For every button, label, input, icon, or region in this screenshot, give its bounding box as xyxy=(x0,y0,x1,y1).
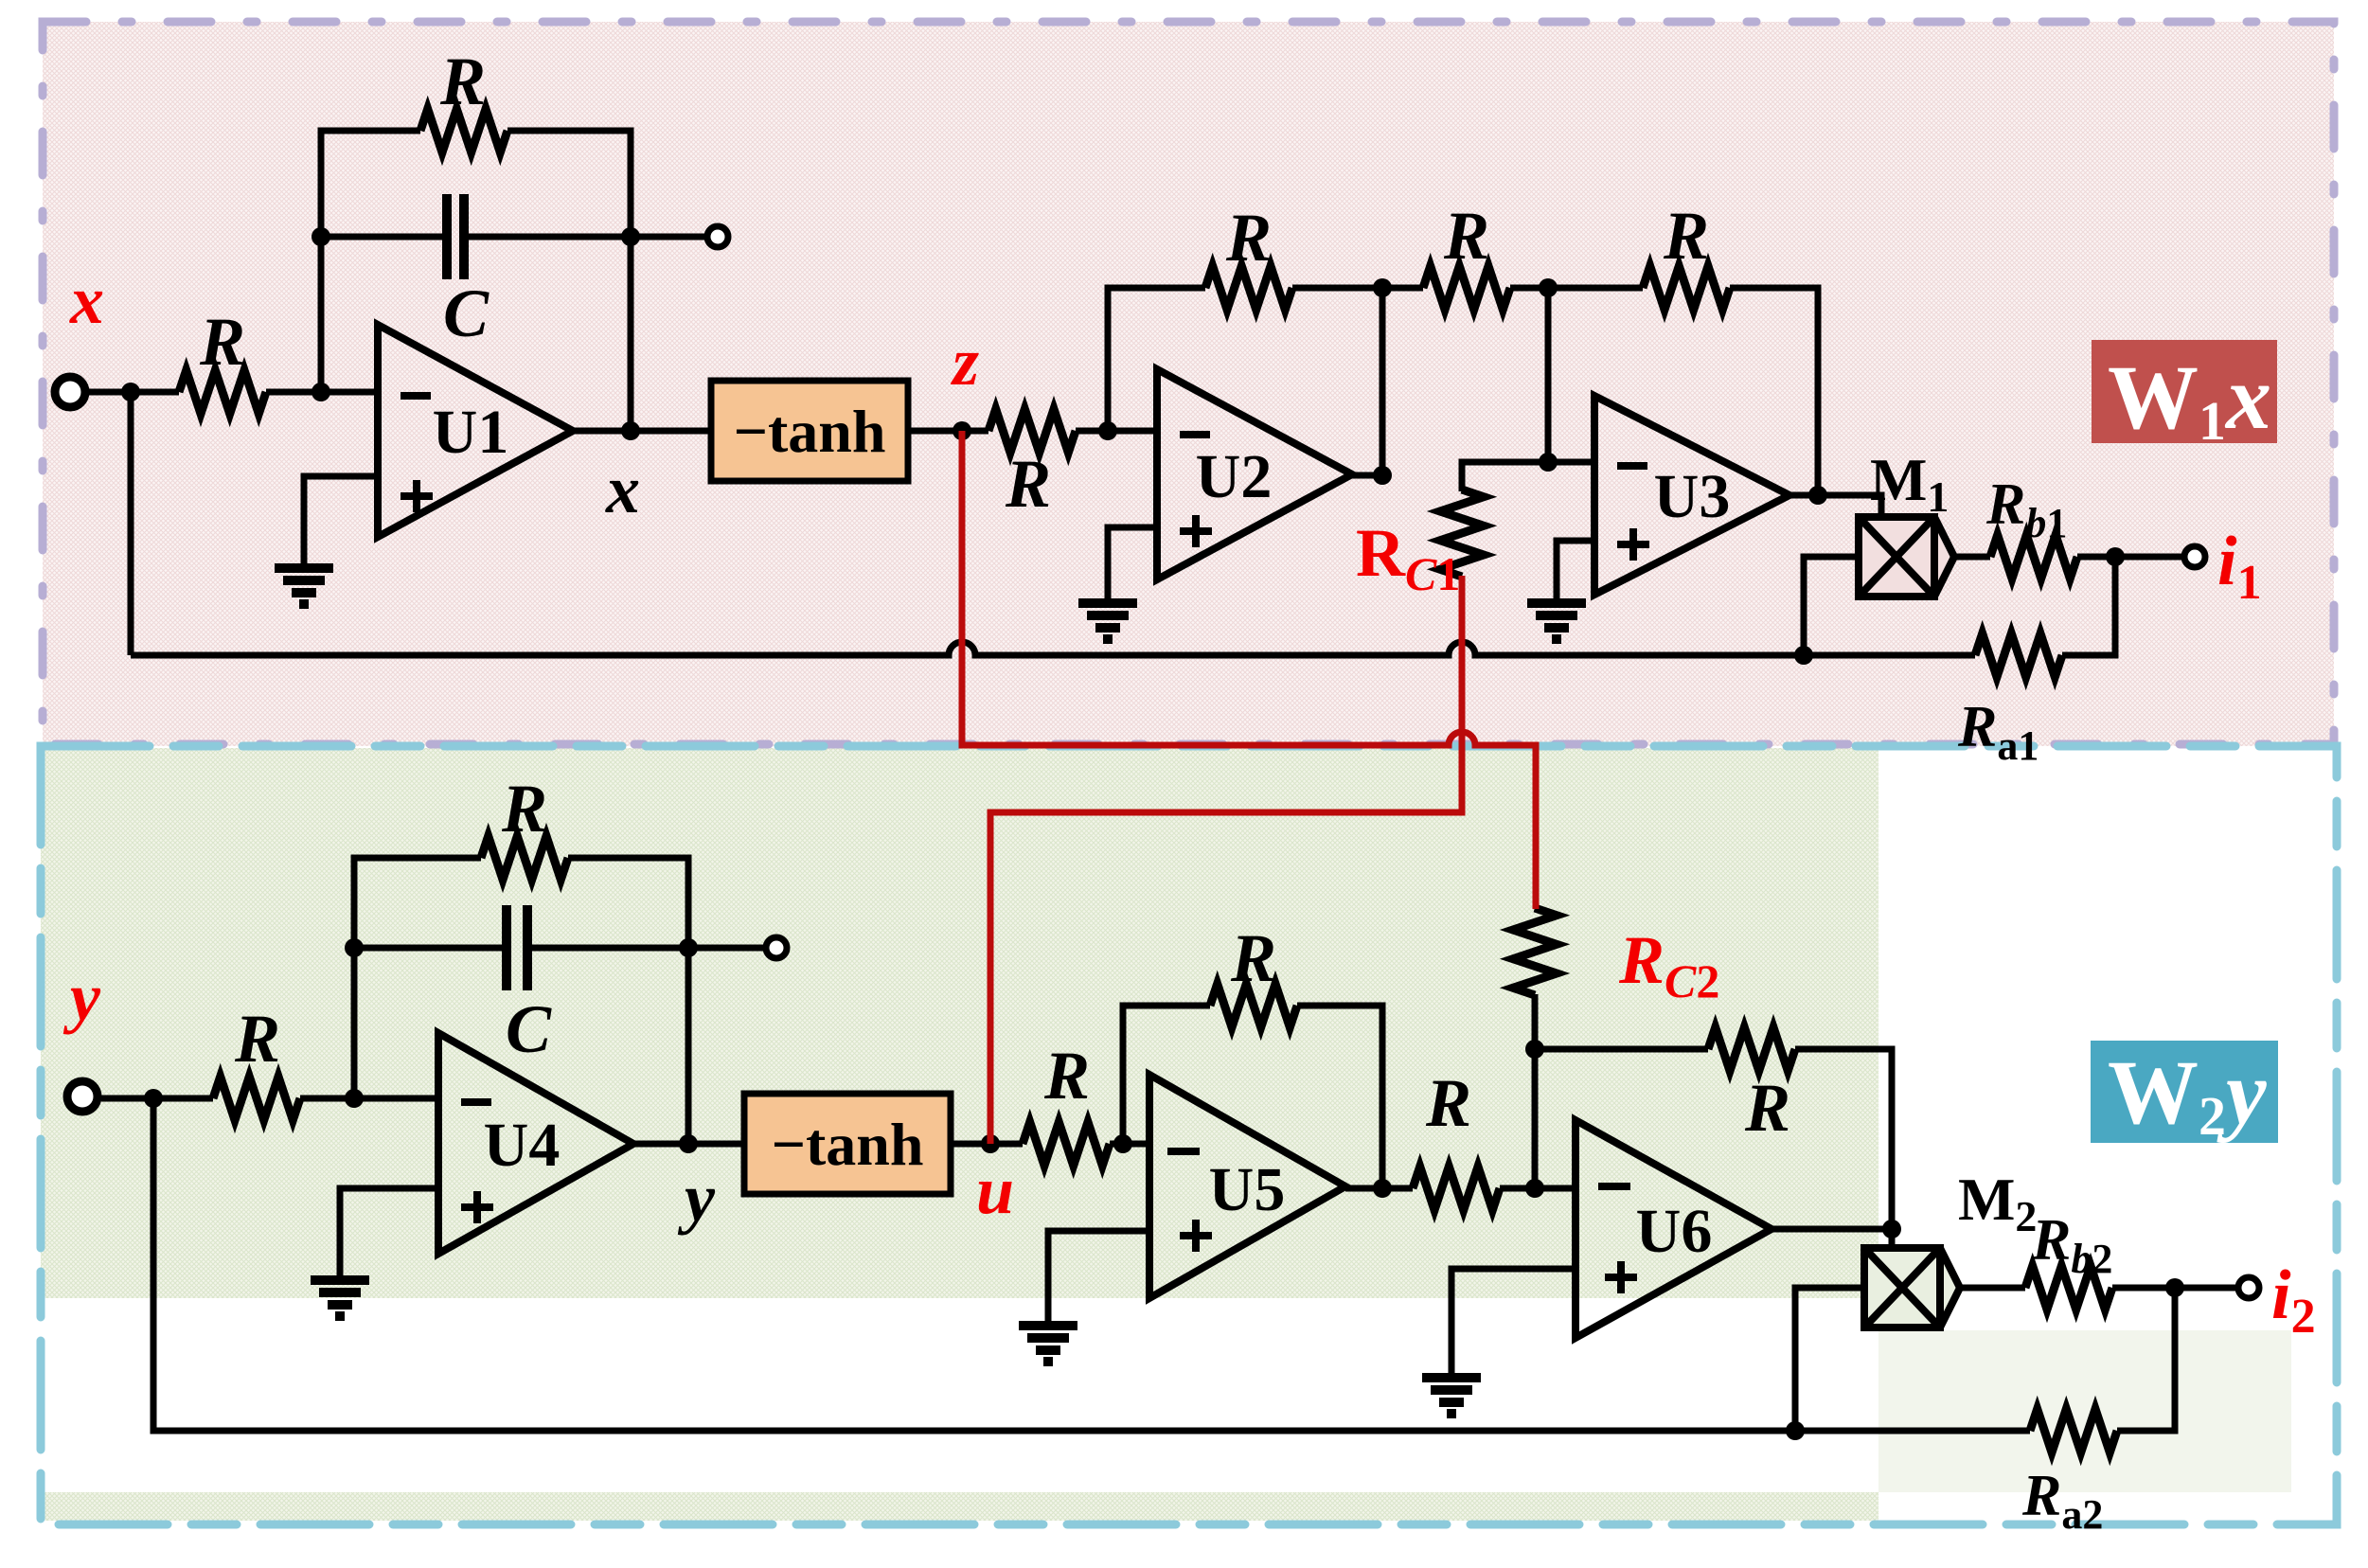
svg-text:R: R xyxy=(439,44,486,119)
svg-text:x: x xyxy=(605,452,640,527)
svg-text:R: R xyxy=(1005,446,1051,522)
svg-text:z: z xyxy=(950,324,979,400)
svg-text:U6: U6 xyxy=(1636,1197,1713,1266)
svg-text:U2: U2 xyxy=(1196,442,1273,511)
svg-text:R: R xyxy=(234,1001,280,1077)
svg-text:u: u xyxy=(976,1152,1014,1228)
svg-text:Rb2: Rb2 xyxy=(2031,1208,2112,1282)
svg-text:C: C xyxy=(506,991,552,1067)
svg-text:U4: U4 xyxy=(484,1111,561,1180)
svg-text:U1: U1 xyxy=(433,398,509,467)
svg-text:C: C xyxy=(443,276,490,351)
svg-text:R: R xyxy=(1425,1065,1471,1141)
svg-text:R: R xyxy=(199,304,245,380)
svg-text:−tanh: −tanh xyxy=(772,1111,924,1178)
svg-text:M2: M2 xyxy=(1958,1166,2037,1240)
svg-text:−tanh: −tanh xyxy=(734,398,886,465)
svg-text:U3: U3 xyxy=(1654,462,1731,531)
svg-text:R: R xyxy=(1443,198,1489,274)
svg-text:i2: i2 xyxy=(2271,1256,2316,1344)
svg-text:x: x xyxy=(69,262,104,338)
svg-text:R: R xyxy=(1744,1070,1790,1146)
svg-text:W1x: W1x xyxy=(2108,347,2271,452)
svg-text:R: R xyxy=(1230,920,1276,996)
svg-text:U5: U5 xyxy=(1209,1155,1286,1224)
svg-text:R: R xyxy=(1225,200,1272,276)
svg-text:R: R xyxy=(501,771,547,846)
svg-text:W2y: W2y xyxy=(2108,1042,2267,1147)
svg-text:R: R xyxy=(1663,198,1709,274)
svg-text:R: R xyxy=(1043,1038,1090,1114)
